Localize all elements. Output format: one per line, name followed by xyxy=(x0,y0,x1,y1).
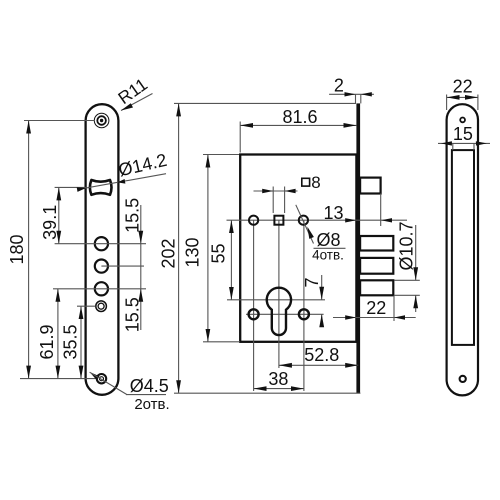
dimension 15 strike extensions xyxy=(452,143,454,150)
top screw hole xyxy=(97,116,106,125)
dimension square8 extensions xyxy=(272,187,274,214)
dimension 7 line upper xyxy=(321,275,323,300)
svg-text:39.1: 39.1 xyxy=(40,205,60,240)
dimension square8 arrows xyxy=(262,189,273,193)
dimension 202 extension bottom xyxy=(174,392,360,394)
leader O4.5 xyxy=(90,372,100,380)
extension line circle1 level xyxy=(55,243,146,245)
dimension 22 strike extensions xyxy=(446,95,448,111)
extension line circle3 level xyxy=(53,288,146,290)
euro cylinder profile xyxy=(267,288,291,335)
extension line small hole level xyxy=(77,305,96,307)
svg-text:22: 22 xyxy=(366,298,386,318)
dimension 130 extension top xyxy=(203,154,239,156)
svg-text:15: 15 xyxy=(453,124,473,144)
dimension 15.5 shared line xyxy=(140,205,142,330)
dimension 15 strike arrows xyxy=(441,141,452,145)
dimension 22 line xyxy=(333,317,416,319)
arrow up at circle3 xyxy=(138,289,143,302)
fixing hole left xyxy=(249,309,259,319)
extension line top screw level xyxy=(24,120,94,122)
top screw hole countersink xyxy=(94,113,109,128)
dimension 81.6 extension left xyxy=(239,122,241,153)
row hole right O8 xyxy=(299,216,308,225)
dimension 39.1 line xyxy=(58,187,60,243)
label square8 xyxy=(302,178,310,186)
svg-text:202: 202 xyxy=(159,238,179,268)
extension line bottom screw level xyxy=(20,378,96,380)
svg-text:35.5: 35.5 xyxy=(60,324,80,359)
dimension O10.7 line xyxy=(415,225,417,280)
svg-text:55: 55 xyxy=(209,243,229,263)
leader R11 xyxy=(121,94,153,111)
dimension 130 extension bottom xyxy=(203,341,240,343)
dimension 81.6 line xyxy=(240,124,356,126)
dimension 61.9 line xyxy=(57,289,59,379)
dimension square8 line xyxy=(254,190,298,192)
svg-text:38: 38 xyxy=(268,369,288,389)
dimension 13 arrows xyxy=(345,218,356,222)
centerline left column xyxy=(253,220,255,391)
deadbolt bar 3 xyxy=(360,280,393,295)
svg-text:61.9: 61.9 xyxy=(37,324,57,359)
dimension 15 strike line xyxy=(438,142,490,144)
deadbolt bar 2 xyxy=(360,258,393,274)
leader O8 xyxy=(296,205,314,244)
dimension 2 arrows xyxy=(345,92,356,96)
svg-text:2отв.: 2отв. xyxy=(134,396,169,413)
small hole outer ring xyxy=(96,301,107,312)
fixing hole right xyxy=(299,309,309,319)
dimension 7 line lower xyxy=(321,314,323,326)
fixing holes line xyxy=(246,313,324,315)
extension line spindle level xyxy=(55,186,86,188)
dimension 202 extension top xyxy=(174,102,356,104)
bar3 tip extension xyxy=(393,295,395,321)
svg-text:Ø4.5: Ø4.5 xyxy=(130,376,169,396)
strike plate outline xyxy=(447,104,478,395)
dimension 202 line xyxy=(178,103,180,393)
svg-text:15.5: 15.5 xyxy=(123,297,143,332)
svg-text:180: 180 xyxy=(7,234,27,264)
row hole left O8 xyxy=(249,216,258,225)
svg-text:2: 2 xyxy=(334,76,344,96)
svg-text:4отв.: 4отв. xyxy=(312,248,344,263)
arrow down at circle1 xyxy=(138,231,143,244)
extension line circle2 level xyxy=(101,265,144,267)
small hole inner ring xyxy=(98,303,104,309)
latch bolt xyxy=(360,178,381,194)
svg-text:22: 22 xyxy=(453,77,473,97)
dimension 130 line xyxy=(207,155,209,342)
top screw hole center dot xyxy=(100,119,103,122)
dimension 180 line xyxy=(28,121,30,379)
lock body outline xyxy=(240,155,356,342)
centerline right column xyxy=(303,220,305,391)
dimension 2 line xyxy=(329,93,374,95)
dimension 35.5 line xyxy=(80,306,82,378)
deadbolt bar 1 xyxy=(360,236,393,251)
strike plate top hole xyxy=(460,118,465,123)
spindle cutout O14.2 xyxy=(90,180,112,195)
svg-text:13: 13 xyxy=(323,203,343,223)
svg-text:7: 7 xyxy=(302,277,322,287)
strike plate recess rectangle xyxy=(452,150,474,345)
svg-text:Ø10.7: Ø10.7 xyxy=(397,221,417,270)
svg-text:15.5: 15.5 xyxy=(123,198,143,233)
svg-text:81.6: 81.6 xyxy=(282,107,317,127)
leader O14.2 xyxy=(78,174,166,190)
dimension 52.8 line xyxy=(279,364,358,366)
lock faceplate side view xyxy=(356,103,360,393)
svg-text:52.8: 52.8 xyxy=(304,345,339,365)
dimension 2 extensions xyxy=(355,94,357,103)
dimension 22 strike line xyxy=(447,96,478,98)
hole row line xyxy=(227,219,408,221)
svg-text:8: 8 xyxy=(311,173,320,192)
strike plate bottom hole xyxy=(460,376,466,382)
dimension 55 line xyxy=(230,220,232,300)
dimension 38 line xyxy=(254,388,304,390)
dimension O10.7 extensions xyxy=(394,279,419,281)
bottom screw hole inner xyxy=(100,377,104,381)
euro center line xyxy=(227,299,325,301)
latch tip extension xyxy=(380,194,382,227)
row square hole 8 xyxy=(274,216,283,225)
centerline euro column xyxy=(278,220,280,368)
hole row circle 2 xyxy=(95,260,108,273)
svg-text:130: 130 xyxy=(182,237,202,267)
bottom screw hole O4.5 xyxy=(97,374,106,383)
hole row circle 1 xyxy=(95,237,108,250)
hole row circle 3 xyxy=(95,282,108,295)
left faceplate outline xyxy=(86,104,119,395)
